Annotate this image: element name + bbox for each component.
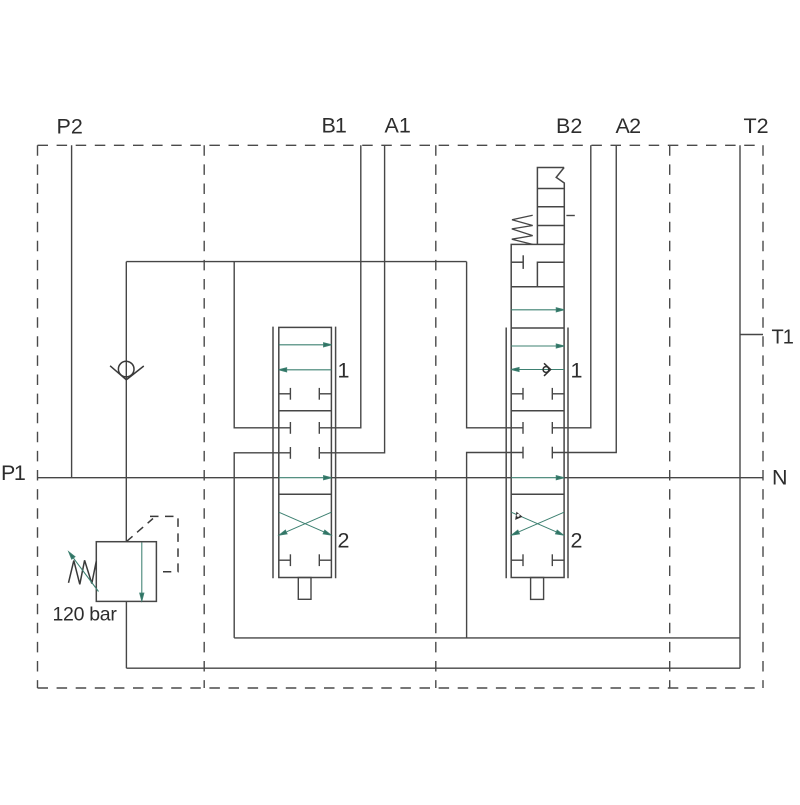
relief valve RV1 flow arrow: [140, 543, 144, 601]
wire V1 supply branch: [234, 262, 290, 428]
svg-text:P1: P1: [1, 461, 25, 485]
V2 inner step: [537, 262, 564, 287]
V2 cross arrow a: [511, 512, 557, 532]
valve V1 flow arrows (green): [279, 343, 332, 535]
wire T2-T1 trunk: [739, 145, 741, 668]
valve V1 detent box: [298, 578, 311, 600]
valve V2 small check on cross arrow: [515, 512, 522, 520]
V2 position divider 2: [511, 493, 564, 495]
wire V2 supply branch: [467, 262, 523, 428]
svg-text:T2: T2: [744, 114, 769, 138]
valve V2 flow arrows (green): [511, 308, 564, 535]
svg-text:N: N: [772, 466, 788, 490]
V1 arrow left position1: [286, 369, 332, 371]
svg-text:2: 2: [338, 529, 350, 553]
V1 arrow neutral P-N: [279, 477, 325, 479]
wire A2 port drop: [552, 145, 616, 452]
section divider dashed line 1: [203, 145, 205, 688]
V2 position divider 1: [511, 410, 564, 412]
svg-text:A1: A1: [385, 114, 411, 138]
port labels: [1, 114, 794, 626]
section divider dashed line 2: [435, 145, 437, 688]
V1 stub row4 left: [279, 559, 291, 561]
relief valve RV1 pilot dashed line: [127, 519, 154, 542]
svg-text:B2: B2: [556, 114, 582, 138]
V2 stub row4 right: [552, 559, 564, 561]
V2 stub row4 left: [511, 559, 523, 561]
V1 stub row2 ticks: [289, 422, 291, 434]
wire V2 carryover down: [467, 453, 523, 638]
wire P2 port drop: [71, 145, 73, 477]
V2 pilot T symbol: [511, 261, 523, 263]
V2 stub row1 right: [552, 393, 564, 395]
wire A1 port drop: [319, 145, 384, 453]
V1 stub row1 right: [319, 393, 331, 395]
wire check valve riser / relief feed: [125, 262, 127, 542]
svg-text:120 bar: 120 bar: [53, 604, 118, 626]
valve V2 spool rails: [506, 328, 568, 579]
valve V2 spring side dash: [566, 215, 574, 217]
V2 arrow right position1: [511, 345, 557, 347]
V2 main body rect: [511, 244, 564, 577]
V1 cross arrow a: [279, 512, 325, 532]
V1 stub row1 left: [279, 393, 291, 395]
wire P1-N main gallery right segment: [564, 477, 763, 479]
valve V1 body: [279, 327, 332, 577]
main dark wires: [38, 145, 764, 668]
V2 arrow left position1: [518, 369, 564, 371]
valve V1 closed port stubs: [279, 388, 332, 566]
valve V2 spring: [512, 215, 533, 244]
svg-text:B1: B1: [322, 114, 346, 138]
svg-text:A2: A2: [616, 114, 641, 138]
V1 stub row3 ticks: [289, 447, 291, 459]
valve V2 body: [511, 168, 564, 578]
V1 cross arrow b: [287, 512, 332, 532]
valve V1 spool rails: [273, 327, 336, 579]
V2 arrow float position: [511, 309, 557, 311]
valve V2 detent box: [531, 578, 544, 600]
check valve CV1: [110, 361, 144, 379]
relief valve RV1 body: [96, 542, 156, 602]
V1 position divider 2: [279, 493, 332, 495]
V2 stub row1 left: [511, 393, 523, 395]
V2 stack divider 2: [537, 206, 564, 208]
V2 stack divider 1: [537, 188, 564, 190]
V2 cross arrow b: [519, 512, 564, 532]
wire B2 port drop: [552, 145, 591, 428]
wire V1 carryover down: [234, 453, 290, 638]
svg-text:T1: T1: [772, 326, 794, 348]
dashed enclosure border: [38, 145, 764, 688]
wire P1-N main gallery left segment: [38, 477, 279, 479]
valve V2 load check on arrow (ball+seat): [543, 363, 551, 376]
wire P1-N main gallery middle segment: [331, 477, 511, 479]
wire carryover gallery to tank: [234, 637, 740, 639]
svg-text:P2: P2: [57, 115, 83, 139]
V2 stub row3 ticks: [522, 447, 524, 459]
svg-text:2: 2: [571, 529, 583, 553]
wire B1 port drop: [319, 145, 361, 428]
wire relief outlet drop: [125, 601, 127, 668]
relief valve RV1 adjust arrow (green): [69, 552, 99, 592]
valve V2 closed port stubs: [511, 388, 564, 566]
V2 detent stack: [537, 168, 564, 245]
V2 stack divider 3: [537, 225, 564, 227]
wire tank gallery: [126, 667, 740, 669]
V2 divider float: [511, 286, 564, 288]
V2 arrow neutral P-N: [511, 477, 557, 479]
V2 detent notch: [556, 168, 564, 245]
wire T1 port stub: [740, 334, 763, 336]
svg-text:1: 1: [571, 358, 583, 382]
section divider dashed line 3: [669, 145, 671, 688]
V1 arrow right position1: [279, 344, 325, 346]
V1 stub row4 right: [319, 559, 331, 561]
svg-text:1: 1: [338, 358, 350, 382]
V1 position divider 1: [279, 410, 332, 412]
wire supply distribution header: [126, 261, 466, 263]
relief valve RV1 spring: [69, 560, 97, 584]
V2 divider top of main 3pos: [511, 327, 564, 329]
V2 stub row2 ticks: [522, 422, 524, 434]
